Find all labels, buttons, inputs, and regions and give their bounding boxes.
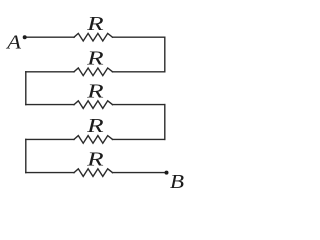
- wire row3 left segment: [26, 104, 74, 106]
- svg-text:B: B: [170, 171, 184, 193]
- wire left vertical rows 2-3: [25, 72, 27, 105]
- svg-text:R: R: [86, 115, 104, 137]
- wire right vertical rows 1-2: [164, 37, 166, 72]
- wire row4 right segment: [113, 138, 165, 140]
- node A terminal dot: [23, 35, 27, 39]
- wire row4 left segment: [26, 138, 74, 140]
- wire row5 to node B: [113, 172, 167, 174]
- wire A to R1: [25, 36, 74, 38]
- resistor R3: [74, 101, 113, 109]
- svg-text:A: A: [5, 31, 22, 53]
- wire left vertical rows 4-5: [25, 139, 27, 172]
- resistor R4: [74, 136, 113, 144]
- wire R1 to right corner: [113, 36, 165, 38]
- svg-text:R: R: [86, 148, 104, 170]
- wire row3 right segment: [113, 104, 165, 106]
- wire right vertical rows 3-4: [164, 105, 166, 140]
- svg-text:R: R: [86, 48, 104, 70]
- svg-text:R: R: [86, 80, 104, 102]
- wire row2 left segment: [26, 71, 74, 73]
- resistor R2: [74, 68, 113, 76]
- resistor R1: [74, 33, 113, 41]
- wire row5 left segment: [26, 172, 74, 174]
- node B terminal dot: [165, 171, 169, 175]
- wire row2 right segment: [113, 71, 165, 73]
- resistor R5: [74, 169, 113, 177]
- svg-text:R: R: [86, 13, 104, 35]
